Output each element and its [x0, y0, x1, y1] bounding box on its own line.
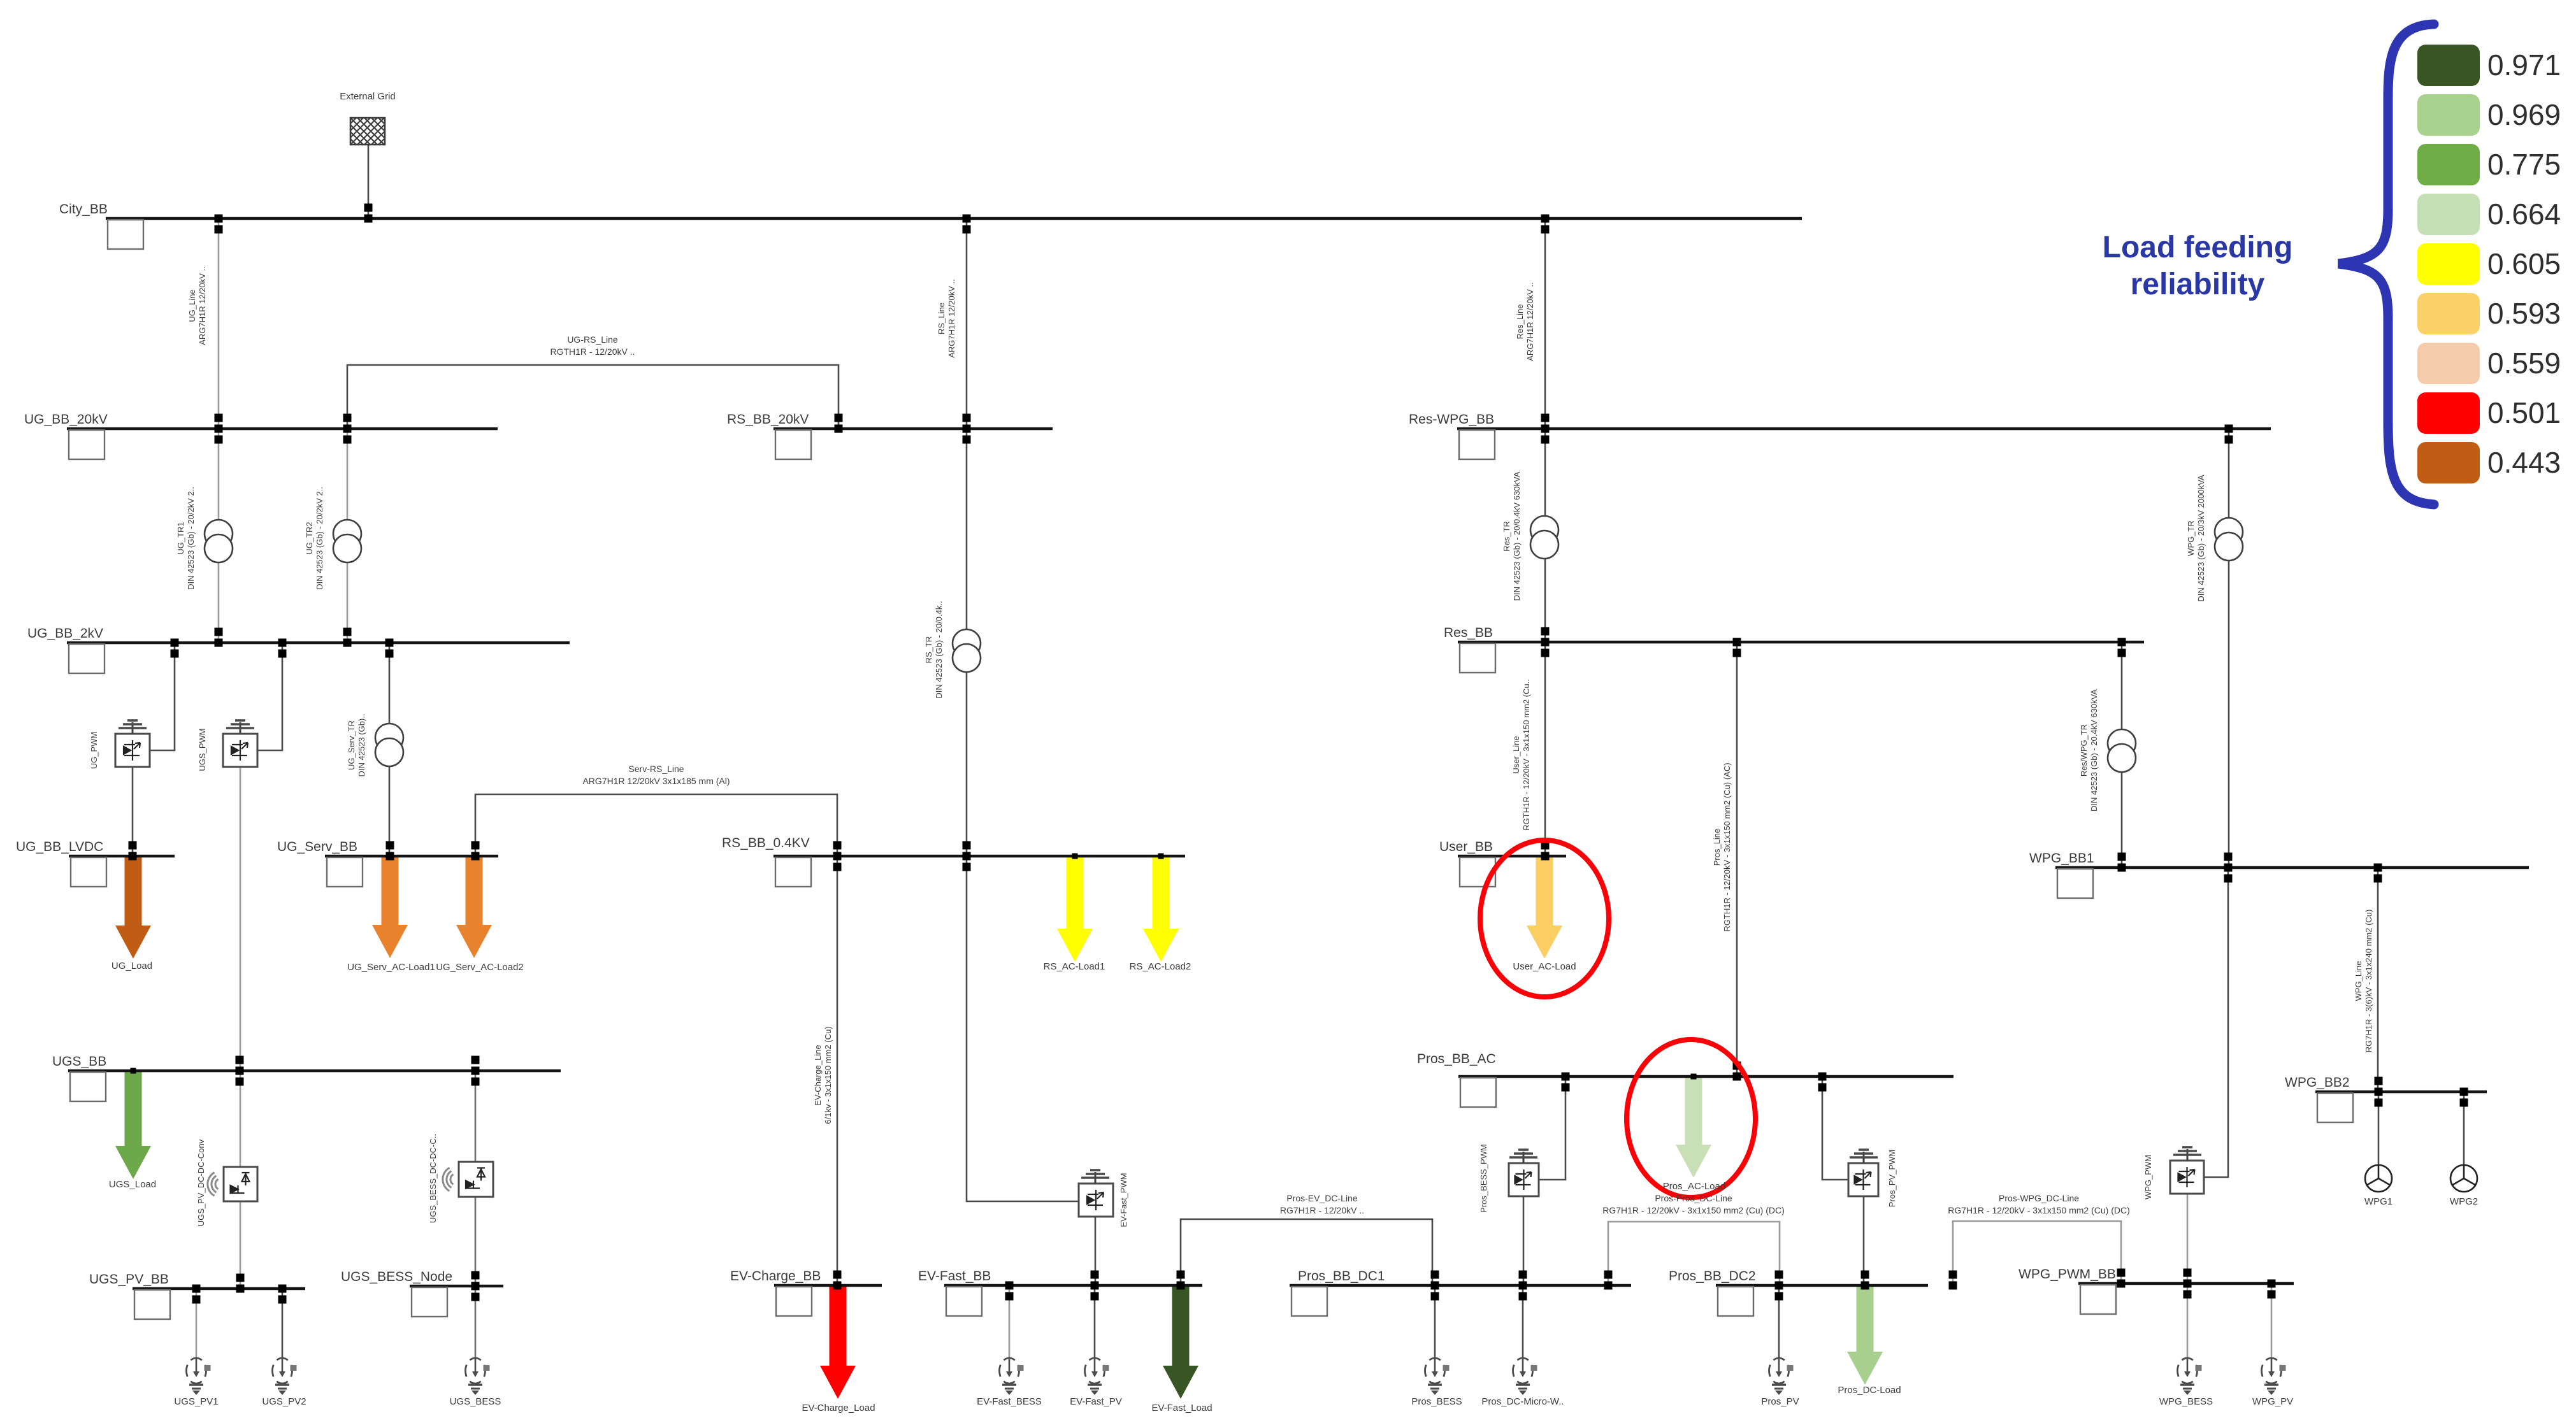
svg-text:UG-RS_Line: UG-RS_Line	[567, 334, 618, 345]
svg-text:City_BB: City_BB	[59, 202, 108, 217]
svg-text:0.969: 0.969	[2487, 98, 2561, 131]
svg-text:WPG_Line: WPG_Line	[2354, 961, 2363, 1001]
svg-text:UGS_BESS_DC-DC-C..: UGS_BESS_DC-DC-C..	[428, 1134, 438, 1223]
svg-text:UGS_Load: UGS_Load	[109, 1179, 156, 1190]
svg-text:WPG_PV: WPG_PV	[2252, 1396, 2293, 1407]
svg-text:RS_TR: RS_TR	[924, 636, 933, 664]
svg-text:User_BB: User_BB	[1439, 840, 1493, 854]
svg-text:UGS_PV_DC-DC-Conv: UGS_PV_DC-DC-Conv	[196, 1139, 206, 1226]
svg-text:Res_TR: Res_TR	[1502, 521, 1511, 552]
svg-text:0.559: 0.559	[2487, 347, 2561, 380]
svg-text:RS_BB_0.4KV: RS_BB_0.4KV	[722, 836, 810, 850]
svg-text:UGS_PV1: UGS_PV1	[174, 1396, 218, 1407]
svg-text:Pros-Pros_DC-Line: Pros-Pros_DC-Line	[1655, 1193, 1732, 1203]
svg-text:DIN 42523 (Gb) - 20/3kV 2000kV: DIN 42523 (Gb) - 20/3kV 2000kVA	[2196, 475, 2206, 602]
svg-text:ARG7H1R 12/20kV 3x1x185 mm (Al: ARG7H1R 12/20kV 3x1x185 mm (Al)	[582, 776, 730, 786]
svg-text:Pros_Line: Pros_Line	[1712, 829, 1722, 866]
svg-text:RG7H1R - 12/20kV ..: RG7H1R - 12/20kV ..	[1280, 1205, 1364, 1215]
svg-text:DIN 42523 (Gb) - 20/2kV 2..: DIN 42523 (Gb) - 20/2kV 2..	[186, 487, 196, 590]
svg-text:DIN 42523 (Gb) - 20/0.4k..: DIN 42523 (Gb) - 20/0.4k..	[934, 601, 944, 698]
svg-text:WPG_PWM_BB: WPG_PWM_BB	[2018, 1267, 2116, 1282]
svg-text:UG_BB_2kV: UG_BB_2kV	[27, 626, 103, 641]
svg-text:External Grid: External Grid	[340, 91, 396, 102]
svg-text:Pros-WPG_DC-Line: Pros-WPG_DC-Line	[1999, 1193, 2079, 1203]
svg-text:UGS_PV2: UGS_PV2	[262, 1396, 306, 1407]
svg-text:ARG7H1R 12/20kV ..: ARG7H1R 12/20kV ..	[1525, 282, 1535, 361]
svg-text:reliability: reliability	[2131, 268, 2265, 301]
svg-text:UGS_BESS_Node: UGS_BESS_Node	[341, 1269, 452, 1284]
svg-text:WPG_BESS: WPG_BESS	[2159, 1396, 2213, 1407]
svg-text:UG_Serv_TR: UG_Serv_TR	[347, 720, 356, 770]
svg-text:EV-Fast_BB: EV-Fast_BB	[918, 1269, 991, 1284]
svg-text:EV-Charge_Line: EV-Charge_Line	[813, 1045, 823, 1105]
svg-text:EV-Fast_PV: EV-Fast_PV	[1070, 1396, 1122, 1407]
svg-text:Pros-EV_DC-Line: Pros-EV_DC-Line	[1286, 1193, 1357, 1203]
svg-text:UG_TR1: UG_TR1	[176, 522, 185, 554]
svg-text:Res_BB: Res_BB	[1444, 626, 1493, 640]
svg-text:RG7H1R - 3(6)kV - 3x1x240 mm2: RG7H1R - 3(6)kV - 3x1x240 mm2 (Cu)	[2364, 910, 2373, 1053]
svg-text:WPG1: WPG1	[2364, 1196, 2393, 1207]
svg-text:RG7H1R - 12/20kV - 3x1x150 mm2: RG7H1R - 12/20kV - 3x1x150 mm2 (Cu) (DC)	[1602, 1205, 1785, 1215]
svg-text:RGTH1R - 12/20kV - 3x1x150 mm2: RGTH1R - 12/20kV - 3x1x150 mm2 (Cu..	[1522, 679, 1531, 831]
svg-text:Res-WPG_BB: Res-WPG_BB	[1409, 412, 1494, 427]
svg-text:EV-Fast_BESS: EV-Fast_BESS	[977, 1396, 1042, 1407]
svg-text:EV-Fast_Load: EV-Fast_Load	[1151, 1403, 1212, 1413]
svg-text:Res/WPG_TR: Res/WPG_TR	[2079, 724, 2089, 776]
svg-text:DIN 42523 (Gb) - 20/0.4kV 630k: DIN 42523 (Gb) - 20/0.4kV 630kVA	[1512, 471, 1522, 601]
svg-text:0.593: 0.593	[2487, 297, 2561, 330]
svg-text:0.775: 0.775	[2487, 148, 2561, 181]
svg-text:WPG_TR: WPG_TR	[2186, 520, 2196, 556]
svg-text:RG7H1R - 12/20kV - 3x1x150 mm2: RG7H1R - 12/20kV - 3x1x150 mm2 (Cu) (DC)	[1948, 1205, 2130, 1215]
svg-text:Pros_BB_AC: Pros_BB_AC	[1417, 1052, 1496, 1066]
svg-text:WPG_BB1: WPG_BB1	[2029, 851, 2094, 866]
svg-text:Res_Line: Res_Line	[1515, 304, 1525, 340]
svg-text:UG_PWM: UG_PWM	[89, 732, 99, 769]
svg-text:DIN 42523 (Gb)..: DIN 42523 (Gb)..	[357, 714, 366, 777]
svg-text:Pros_BB_DC1: Pros_BB_DC1	[1298, 1269, 1385, 1284]
svg-text:User_Line: User_Line	[1511, 736, 1521, 773]
svg-text:UGS_BB: UGS_BB	[52, 1054, 106, 1069]
svg-text:UGS_BESS: UGS_BESS	[450, 1396, 501, 1407]
svg-text:RS_Line: RS_Line	[937, 303, 946, 334]
svg-text:0.605: 0.605	[2487, 247, 2561, 280]
svg-text:DIN 42523 (Gb) - 20/2kV 2..: DIN 42523 (Gb) - 20/2kV 2..	[315, 487, 324, 590]
svg-text:ARG7H1R 12/20kV ..: ARG7H1R 12/20kV ..	[947, 279, 956, 358]
svg-text:RGTH1R - 12/20kV ..: RGTH1R - 12/20kV ..	[550, 347, 635, 357]
svg-text:Pros_DC-Micro-W..: Pros_DC-Micro-W..	[1481, 1396, 1564, 1407]
svg-text:Pros_DC-Load: Pros_DC-Load	[1838, 1385, 1901, 1396]
svg-text:Pros_BESS_PWM: Pros_BESS_PWM	[1479, 1144, 1488, 1213]
svg-text:UG_TR2: UG_TR2	[305, 522, 314, 554]
svg-text:WPG_BB2: WPG_BB2	[2285, 1075, 2350, 1090]
svg-text:WPG_PWM: WPG_PWM	[2143, 1155, 2153, 1199]
svg-text:RS_BB_20kV: RS_BB_20kV	[727, 412, 809, 427]
svg-text:0.443: 0.443	[2487, 446, 2561, 479]
svg-text:6/1kv - 3x1x150 mm2 (Cu): 6/1kv - 3x1x150 mm2 (Cu)	[823, 1026, 833, 1124]
svg-text:EV-Fast_PWM: EV-Fast_PWM	[1119, 1173, 1128, 1227]
svg-text:UG_Serv_BB: UG_Serv_BB	[277, 840, 357, 854]
svg-text:WPG2: WPG2	[2450, 1196, 2478, 1207]
svg-text:UG_BB_LVDC: UG_BB_LVDC	[16, 840, 103, 854]
svg-text:Pros_BESS: Pros_BESS	[1411, 1396, 1462, 1407]
svg-text:UG_BB_20kV: UG_BB_20kV	[24, 412, 108, 427]
svg-text:UG_Serv_AC-Load2: UG_Serv_AC-Load2	[436, 962, 524, 973]
svg-text:UGS_PV_BB: UGS_PV_BB	[89, 1272, 169, 1287]
svg-text:0.971: 0.971	[2487, 48, 2561, 82]
svg-text:RGTH1R - 12/20kV - 3x1x150 mm2: RGTH1R - 12/20kV - 3x1x150 mm2 (Cu) (AC)	[1722, 762, 1732, 931]
svg-text:Pros_PV: Pros_PV	[1761, 1396, 1799, 1407]
svg-text:0.501: 0.501	[2487, 396, 2561, 429]
svg-text:UGS_PWM: UGS_PWM	[198, 728, 207, 771]
svg-text:DIN 42523 (Gb) - 20.4kV 630kVA: DIN 42523 (Gb) - 20.4kV 630kVA	[2089, 689, 2099, 812]
svg-text:UG_Serv_AC-Load1: UG_Serv_AC-Load1	[347, 962, 435, 973]
svg-text:Pros_AC-Load: Pros_AC-Load	[1663, 1181, 1725, 1192]
svg-text:EV-Charge_Load: EV-Charge_Load	[802, 1403, 875, 1413]
svg-text:Serv-RS_Line: Serv-RS_Line	[628, 764, 684, 774]
svg-text:RS_AC-Load1: RS_AC-Load1	[1044, 961, 1105, 972]
svg-text:ARG7H1R 12/20kV ..: ARG7H1R 12/20kV ..	[198, 266, 207, 345]
svg-text:Pros_BB_DC2: Pros_BB_DC2	[1669, 1269, 1756, 1284]
svg-text:Pros_PV_PWM: Pros_PV_PWM	[1887, 1150, 1897, 1207]
svg-text:Load feeding: Load feeding	[2103, 231, 2293, 264]
svg-text:UG_Line: UG_Line	[187, 289, 197, 322]
svg-text:UG_Load: UG_Load	[112, 961, 152, 971]
svg-text:RS_AC-Load2: RS_AC-Load2	[1130, 961, 1191, 972]
svg-text:User_AC-Load: User_AC-Load	[1513, 961, 1576, 972]
svg-text:0.664: 0.664	[2487, 197, 2561, 231]
svg-text:EV-Charge_BB: EV-Charge_BB	[730, 1269, 821, 1284]
